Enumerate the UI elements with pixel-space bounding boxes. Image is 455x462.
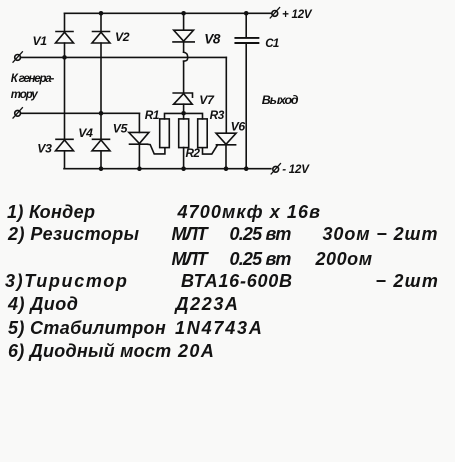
node bottom rail / V5 bbox=[137, 166, 142, 171]
wire V5 gate bbox=[148, 144, 165, 154]
svg-text:+ 12V: + 12V bbox=[282, 9, 313, 21]
node bottom rail / V6 bbox=[224, 166, 229, 171]
label +12V bbox=[282, 9, 313, 21]
svg-text:V7: V7 bbox=[199, 93, 215, 107]
node top rail / C1 bbox=[244, 11, 249, 16]
label V3 bbox=[37, 142, 52, 156]
node bottom rail / R2 bbox=[181, 166, 186, 171]
label C1 bbox=[265, 38, 279, 50]
node gen2 / V2 bbox=[99, 111, 104, 116]
label V2 bbox=[115, 30, 130, 44]
diode V8 bbox=[173, 30, 194, 42]
terminal generator 1 bbox=[13, 52, 22, 62]
label V5 bbox=[113, 122, 128, 136]
thyristor V5 bbox=[129, 132, 149, 144]
node V7 / resistor rail bbox=[181, 111, 186, 116]
wire V5 column bbox=[138, 113, 140, 168]
thyristor V6 bbox=[216, 133, 236, 145]
resistor R1 bbox=[160, 119, 170, 148]
svg-text:V3: V3 bbox=[37, 142, 52, 156]
diode V4 bbox=[92, 139, 110, 151]
zener V7 bbox=[173, 93, 192, 104]
svg-text:V4: V4 bbox=[78, 126, 93, 140]
diode V3 bbox=[56, 139, 74, 151]
parts list line 5 bbox=[8, 294, 78, 315]
wire V6 column bbox=[225, 57, 227, 168]
label V7 bbox=[199, 93, 215, 107]
label Vyhod bbox=[262, 93, 299, 107]
svg-text:К генера-: К генера- bbox=[11, 73, 55, 85]
svg-text:V5: V5 bbox=[113, 122, 128, 136]
wire generator line 1 bbox=[21, 56, 227, 58]
wire generator line 2 bbox=[21, 112, 140, 114]
wire top +12V rail bbox=[65, 12, 272, 14]
resistor R2 bbox=[179, 119, 189, 148]
label R1 bbox=[145, 108, 159, 122]
wire crossover hop over generator line 1 bbox=[184, 52, 188, 61]
label K generatoru line2 bbox=[11, 89, 39, 101]
svg-text:C1: C1 bbox=[265, 38, 279, 50]
svg-text:V6: V6 bbox=[231, 120, 246, 134]
wire V2/V4 column bbox=[100, 13, 102, 168]
node gen1 / V1 bbox=[62, 55, 67, 60]
svg-text:V1: V1 bbox=[33, 34, 48, 48]
diode V1 bbox=[56, 32, 74, 44]
wire V8/V7/R2 column bbox=[183, 13, 185, 168]
label -12V bbox=[282, 164, 310, 176]
diode V2 bbox=[92, 32, 110, 44]
svg-text:V8: V8 bbox=[204, 32, 221, 47]
label V1 bbox=[33, 34, 48, 48]
wire V6 gate bbox=[203, 145, 218, 154]
wire C1 column bbox=[245, 13, 247, 168]
node top rail / V8 bbox=[181, 11, 186, 16]
svg-text:Выход: Выход bbox=[262, 93, 299, 107]
label V4 bbox=[78, 126, 93, 140]
node top rail / V2 bbox=[99, 11, 104, 16]
terminal +12V bbox=[270, 8, 279, 18]
svg-text:- 12V: - 12V bbox=[282, 164, 310, 176]
node bottom rail / C1 bbox=[244, 166, 249, 171]
svg-text:V2: V2 bbox=[115, 30, 130, 44]
terminal -12V bbox=[271, 164, 280, 174]
svg-text:тору: тору bbox=[11, 89, 39, 101]
capacitor C1 bbox=[235, 38, 258, 43]
svg-text:R1: R1 bbox=[145, 108, 159, 122]
svg-text:R3: R3 bbox=[210, 108, 225, 122]
parts list line 7 bbox=[8, 341, 171, 362]
parts list line 2 bbox=[8, 224, 140, 245]
label R2 bbox=[186, 146, 201, 160]
parts list line 6 bbox=[8, 318, 166, 339]
svg-text:R2: R2 bbox=[186, 146, 201, 160]
label V8 bbox=[204, 32, 221, 47]
parts list line 3 bbox=[172, 249, 207, 270]
parts list line 1 bbox=[7, 202, 95, 223]
parts list line 4 bbox=[5, 271, 129, 292]
wire V1/V3 column bbox=[64, 13, 66, 168]
label K generatoru line1 bbox=[11, 73, 55, 85]
label V6 bbox=[231, 120, 246, 134]
terminal generator 2 bbox=[13, 108, 22, 118]
wire resistor top rail bbox=[165, 113, 203, 119]
label R3 bbox=[210, 108, 225, 122]
wire bottom -12V rail bbox=[64, 168, 271, 170]
node bottom rail / V4 bbox=[99, 166, 104, 171]
resistor R3 bbox=[198, 119, 208, 148]
